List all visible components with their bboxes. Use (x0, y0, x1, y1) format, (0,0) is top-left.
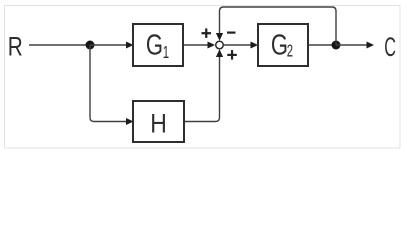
wire G1 to summing junction (184, 44, 208, 46)
wire output node to C (336, 44, 367, 46)
wire feedback: output node up, across top, down into summing junction (220, 7, 337, 45)
summing junction (216, 41, 224, 49)
sign minus (top input) (227, 32, 236, 34)
node output dot (332, 41, 341, 50)
wire branch node down and right to H input (90, 45, 126, 122)
block H (133, 101, 184, 142)
svg-text:G: G (271, 30, 288, 62)
svg-text:R: R (8, 32, 23, 62)
block G2 (258, 24, 308, 66)
svg-text:1: 1 (163, 44, 169, 63)
frame border (5, 6, 401, 149)
wire G2 to output node (309, 44, 336, 46)
wire summing junction to G2 (224, 44, 251, 46)
svg-text:2: 2 (287, 42, 293, 61)
sign plus (bottom input) (227, 50, 237, 60)
block G1 (133, 24, 183, 66)
wire branch node to G1 (90, 44, 126, 46)
wire R to branch node (29, 44, 90, 46)
node branch dot (86, 41, 95, 50)
wire H output right and up into summing junction (185, 57, 220, 122)
svg-text:G: G (146, 30, 163, 62)
sign plus (left input) (202, 28, 212, 38)
svg-text:C: C (384, 32, 396, 62)
svg-text:H: H (150, 109, 167, 139)
